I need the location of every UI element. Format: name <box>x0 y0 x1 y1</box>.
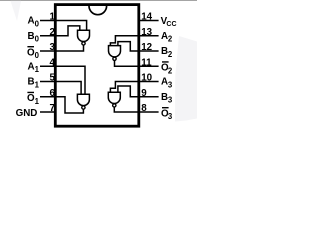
svg-text:8: 8 <box>141 103 147 114</box>
pin 13 lead (A2) <box>139 35 159 37</box>
wire pin13 A2 to U1D input <box>110 36 138 46</box>
wire pin10 A3 to U1C input <box>110 82 138 93</box>
svg-text:11: 11 <box>141 57 152 68</box>
pin 1 lead (A0) <box>40 20 55 22</box>
svg-text:13: 13 <box>141 27 152 38</box>
svg-text:B: B <box>28 31 35 42</box>
wire pin12 B2 to U1D input <box>118 42 139 51</box>
svg-text:2: 2 <box>168 66 173 75</box>
svg-text:1: 1 <box>35 65 40 74</box>
svg-text:7: 7 <box>49 103 55 114</box>
IC body outline U1 <box>55 5 139 127</box>
IC notch (pin-1 index) <box>89 6 107 15</box>
NAND gate U1C <box>108 92 120 103</box>
scan artifact: top gray line <box>0 0 197 2</box>
svg-text:1: 1 <box>35 97 40 106</box>
pin 8 lead (O3) <box>139 111 159 113</box>
wire pin1 A0 to U1A input <box>55 21 86 31</box>
wire pin4 A1 to U1B input <box>55 66 85 94</box>
wire U1A output to pin3 ~O0 <box>55 45 83 51</box>
svg-text:1: 1 <box>35 80 40 89</box>
wire pin2 B0 to U1A input <box>55 26 80 36</box>
svg-text:2: 2 <box>168 35 173 44</box>
pin 9 lead (B3) <box>139 96 159 98</box>
svg-text:9: 9 <box>141 88 147 99</box>
pin 14 lead (VCC) <box>139 20 159 22</box>
svg-text:14: 14 <box>141 12 152 23</box>
pin 5 lead (B1) <box>40 81 55 83</box>
svg-text:3: 3 <box>49 42 55 53</box>
svg-text:12: 12 <box>141 42 152 53</box>
wire pin5 B1 to U1B input <box>55 82 81 95</box>
svg-text:3: 3 <box>168 80 173 89</box>
NAND gate U1D <box>109 46 121 57</box>
svg-text:3: 3 <box>168 112 173 121</box>
wire U1D output to pin11 ~O2 <box>115 61 139 67</box>
svg-text:3: 3 <box>168 96 173 105</box>
pin 4 lead (A1) <box>40 65 55 67</box>
wire pin9 B3 to U1C input <box>118 86 139 97</box>
svg-text:0: 0 <box>35 51 40 60</box>
svg-text:0: 0 <box>35 35 40 44</box>
U1A output bubble <box>82 42 85 45</box>
scan artifact: faint top-left patch <box>11 1 22 21</box>
wire U1C output to pin8 ~O3 <box>114 107 139 112</box>
svg-text:4: 4 <box>49 57 55 68</box>
pin 10 lead (A3) <box>139 81 159 83</box>
pin 7 lead (GND) <box>40 111 55 113</box>
svg-text:CC: CC <box>166 21 176 28</box>
pin 6 lead (O1) <box>40 96 55 98</box>
svg-text:0: 0 <box>35 19 40 28</box>
pin 12 lead (B2) <box>139 50 159 52</box>
svg-text:A: A <box>28 61 35 72</box>
svg-text:2: 2 <box>49 27 55 38</box>
U1D output bubble <box>113 57 116 60</box>
svg-text:2: 2 <box>168 50 173 59</box>
svg-text:6: 6 <box>49 88 55 99</box>
U1C output bubble <box>113 104 116 107</box>
scan artifact: faint right patch <box>175 36 197 122</box>
pin 2 lead (B0) <box>40 35 55 37</box>
pin 11 lead (O2) <box>139 65 159 67</box>
svg-text:10: 10 <box>141 73 152 84</box>
svg-text:GND: GND <box>16 108 38 119</box>
svg-text:B: B <box>28 77 35 88</box>
pin 3 lead (O0) <box>40 50 55 52</box>
NAND gate U1B <box>77 94 89 105</box>
svg-text:A: A <box>28 16 35 27</box>
NAND gate U1A <box>78 30 90 41</box>
svg-text:1: 1 <box>49 12 55 23</box>
U1B output bubble <box>82 106 85 109</box>
svg-text:5: 5 <box>49 73 55 84</box>
wire U1B output to pin6 ~O1 <box>55 97 83 113</box>
